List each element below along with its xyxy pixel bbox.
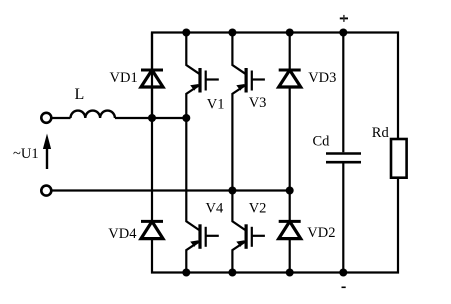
diode VD1 bbox=[110, 33, 164, 119]
svg-text:Rd: Rd bbox=[372, 125, 390, 141]
node + (DC positive terminal) bbox=[340, 15, 348, 22]
svg-text:VD2: VD2 bbox=[307, 225, 335, 241]
svg-text:V2: V2 bbox=[249, 201, 267, 217]
svg-text:V1: V1 bbox=[207, 97, 225, 113]
inductor L bbox=[71, 86, 115, 118]
junction bottom rail V4 bbox=[182, 269, 190, 277]
junction bottom rail Cd bbox=[339, 269, 347, 277]
diode VD4 bbox=[108, 118, 163, 242]
junction upper midline V1 bbox=[182, 114, 190, 122]
svg-text:VD4: VD4 bbox=[108, 226, 137, 242]
capacitor Cd bbox=[313, 33, 362, 273]
svg-text:Cd: Cd bbox=[313, 134, 331, 150]
wire upper midline (L to bridge leg 1) bbox=[52, 117, 187, 119]
svg-text:L: L bbox=[75, 86, 85, 103]
junction lower midline VD2 bbox=[286, 187, 294, 195]
svg-text:V3: V3 bbox=[249, 95, 267, 111]
junction top rail V1 bbox=[182, 29, 190, 37]
diode VD3 bbox=[279, 33, 337, 191]
junction bottom rail V2 bbox=[228, 269, 236, 277]
ac source ~U1 bbox=[13, 113, 51, 196]
wire bottom DC rail bbox=[152, 178, 398, 273]
junction upper midline VD1 bbox=[148, 114, 156, 122]
svg-text:~U1: ~U1 bbox=[13, 146, 39, 162]
wire top DC rail bbox=[152, 33, 398, 140]
IGBT V4 bbox=[186, 118, 224, 273]
diode VD2 bbox=[279, 191, 336, 273]
svg-text:V4: V4 bbox=[206, 201, 224, 217]
junction top rail Cd bbox=[339, 29, 347, 37]
resistor Rd bbox=[372, 125, 407, 178]
junction top rail V3 bbox=[228, 29, 236, 37]
IGBT V2 bbox=[232, 191, 266, 273]
IGBT V3 bbox=[232, 33, 266, 191]
junction lower midline V2 bbox=[228, 187, 236, 195]
junction bottom rail VD2 bbox=[286, 269, 294, 277]
IGBT V1 bbox=[186, 33, 224, 119]
wire lower midline (source to bridge leg 2) bbox=[52, 189, 290, 191]
node - (DC negative terminal) bbox=[342, 286, 346, 288]
svg-text:VD3: VD3 bbox=[308, 70, 336, 86]
svg-text:VD1: VD1 bbox=[110, 70, 138, 86]
junction top rail VD3 bbox=[286, 29, 294, 37]
